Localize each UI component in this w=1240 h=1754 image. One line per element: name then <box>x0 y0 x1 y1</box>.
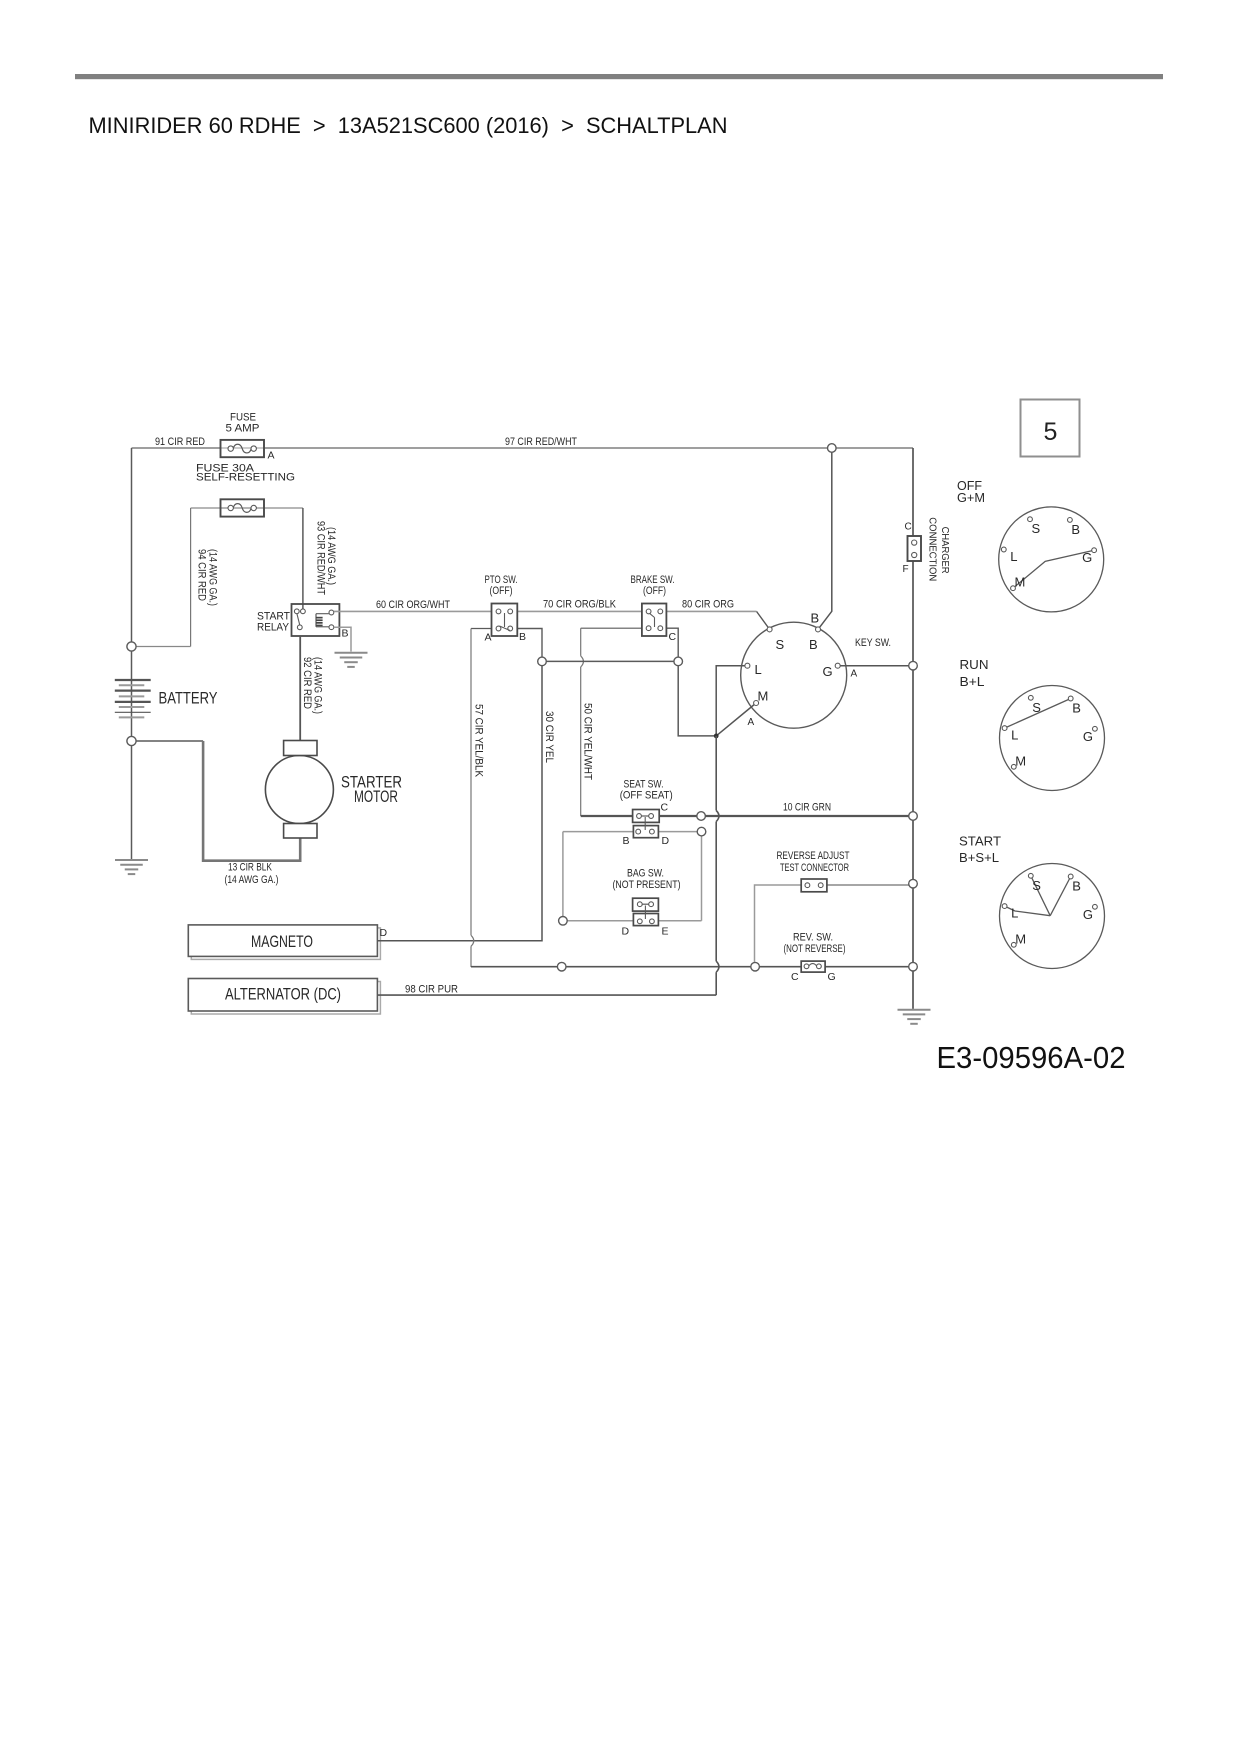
svg-text:G: G <box>828 971 836 983</box>
svg-text:(OFF): (OFF) <box>643 585 666 597</box>
svg-text:REV. SW.: REV. SW. <box>793 932 833 944</box>
svg-text:13 CIR BLK: 13 CIR BLK <box>228 862 272 874</box>
svg-text:(14 AWG GA.): (14 AWG GA.) <box>325 527 337 585</box>
svg-text:93 CIR RED/WHT: 93 CIR RED/WHT <box>315 521 327 595</box>
svg-text:RELAY: RELAY <box>257 622 290 634</box>
svg-text:B: B <box>342 628 349 640</box>
svg-text:S: S <box>1032 700 1041 715</box>
svg-text:C: C <box>669 631 677 643</box>
svg-text:B+S+L: B+S+L <box>959 850 999 865</box>
svg-text:S: S <box>1032 878 1041 893</box>
svg-text:C: C <box>905 522 912 533</box>
svg-text:98 CIR PUR: 98 CIR PUR <box>405 984 458 996</box>
svg-text:MAGNETO: MAGNETO <box>251 932 313 951</box>
svg-text:(NOT REVERSE): (NOT REVERSE) <box>784 943 846 955</box>
svg-text:5: 5 <box>1044 418 1058 446</box>
svg-text:M: M <box>758 689 769 704</box>
svg-text:ALTERNATOR (DC): ALTERNATOR (DC) <box>225 985 341 1004</box>
svg-text:C: C <box>791 971 799 983</box>
svg-text:L: L <box>1011 906 1018 921</box>
svg-text:M: M <box>1015 575 1026 590</box>
svg-text:10 CIR GRN: 10 CIR GRN <box>783 802 831 814</box>
svg-text:C: C <box>661 802 669 814</box>
svg-text:B: B <box>519 631 526 643</box>
svg-text:BATTERY: BATTERY <box>159 689 218 708</box>
svg-text:F: F <box>903 564 909 575</box>
svg-text:50 CIR YEL/WHT: 50 CIR YEL/WHT <box>582 703 594 780</box>
svg-text:BAG SW.: BAG SW. <box>627 868 664 880</box>
svg-text:91 CIR RED: 91 CIR RED <box>155 436 205 448</box>
svg-text:G: G <box>1083 729 1093 744</box>
svg-text:97 CIR RED/WHT: 97 CIR RED/WHT <box>505 436 577 448</box>
svg-text:D: D <box>662 835 670 847</box>
svg-text:92 CIR RED: 92 CIR RED <box>301 657 313 709</box>
svg-text:M: M <box>1015 753 1026 768</box>
svg-text:L: L <box>1010 549 1017 564</box>
svg-text:30 CIR YEL: 30 CIR YEL <box>543 711 555 763</box>
svg-text:CHARGER: CHARGER <box>939 527 951 574</box>
svg-text:CONNECTION: CONNECTION <box>927 517 939 581</box>
svg-text:B: B <box>1071 522 1080 537</box>
svg-text:B: B <box>811 611 820 626</box>
svg-text:KEY SW.: KEY SW. <box>855 637 891 649</box>
svg-text:START: START <box>959 834 1001 849</box>
svg-text:G: G <box>1083 907 1093 922</box>
svg-text:60 CIR ORG/WHT: 60 CIR ORG/WHT <box>376 599 450 611</box>
svg-text:B: B <box>809 637 818 652</box>
svg-text:70 CIR ORG/BLK: 70 CIR ORG/BLK <box>543 599 617 611</box>
svg-text:A: A <box>851 669 858 680</box>
svg-text:A: A <box>268 450 275 462</box>
svg-text:D: D <box>622 925 630 937</box>
svg-text:(14 AWG GA.): (14 AWG GA.) <box>312 657 324 714</box>
svg-text:L: L <box>1011 728 1018 743</box>
svg-text:E: E <box>662 925 669 937</box>
svg-text:(OFF): (OFF) <box>490 585 513 597</box>
svg-text:SEAT SW.: SEAT SW. <box>624 778 664 790</box>
svg-text:TEST CONNECTOR: TEST CONNECTOR <box>780 862 849 874</box>
svg-text:B: B <box>623 835 630 847</box>
svg-text:(14 AWG GA.): (14 AWG GA.) <box>207 549 219 606</box>
svg-text:B+L: B+L <box>960 674 985 689</box>
svg-text:L: L <box>755 662 762 677</box>
svg-text:SELF-RESETTING: SELF-RESETTING <box>196 472 295 484</box>
svg-text:94 CIR RED: 94 CIR RED <box>196 549 208 601</box>
svg-text:5 AMP: 5 AMP <box>226 423 260 435</box>
svg-text:S: S <box>1032 521 1041 536</box>
svg-text:MOTOR: MOTOR <box>354 787 398 806</box>
svg-text:REVERSE ADJUST: REVERSE ADJUST <box>777 850 850 862</box>
svg-text:80 CIR ORG: 80 CIR ORG <box>682 599 734 611</box>
svg-text:E3-09596A-02: E3-09596A-02 <box>937 1040 1126 1075</box>
svg-text:(NOT PRESENT): (NOT PRESENT) <box>613 879 681 891</box>
svg-text:B: B <box>1072 879 1081 894</box>
svg-text:M: M <box>1015 931 1026 946</box>
svg-text:G: G <box>823 664 833 679</box>
svg-text:A: A <box>748 717 755 728</box>
svg-text:MINIRIDER 60 RDHE > 13A521SC: MINIRIDER 60 RDHE > 13A521SC600 (2016) >… <box>89 113 728 138</box>
svg-text:(OFF SEAT): (OFF SEAT) <box>620 790 673 802</box>
svg-text:57 CIR YEL/BLK: 57 CIR YEL/BLK <box>473 704 485 778</box>
svg-text:G: G <box>1082 550 1092 565</box>
svg-text:S: S <box>776 637 785 652</box>
svg-text:B: B <box>1072 701 1081 716</box>
svg-text:RUN: RUN <box>960 657 989 672</box>
svg-text:G+M: G+M <box>957 490 985 505</box>
svg-text:A: A <box>485 632 492 644</box>
svg-text:(14 AWG GA.): (14 AWG GA.) <box>225 874 279 886</box>
svg-text:D: D <box>380 927 388 939</box>
